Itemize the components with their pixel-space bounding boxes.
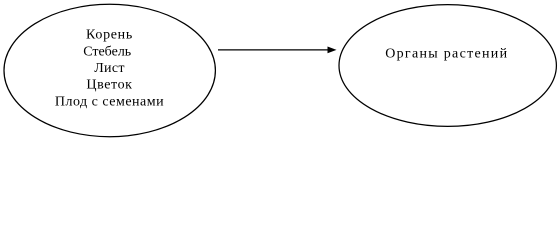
svg-text:Стебель: Стебель bbox=[83, 44, 131, 59]
svg-text:Корень: Корень bbox=[86, 28, 133, 43]
svg-text:Лист: Лист bbox=[94, 61, 125, 76]
arrowhead bbox=[328, 47, 337, 54]
svg-text:Плод с семенами: Плод с семенами bbox=[55, 94, 164, 109]
svg-text:Цветок: Цветок bbox=[86, 78, 132, 93]
ellipse: right (Органы растений) bbox=[339, 5, 556, 127]
wire: arrow shaft connector bbox=[218, 49, 329, 51]
ellipse: left (plant parts list) bbox=[4, 4, 215, 136]
svg-text:Органы растений: Органы растений bbox=[385, 46, 508, 61]
